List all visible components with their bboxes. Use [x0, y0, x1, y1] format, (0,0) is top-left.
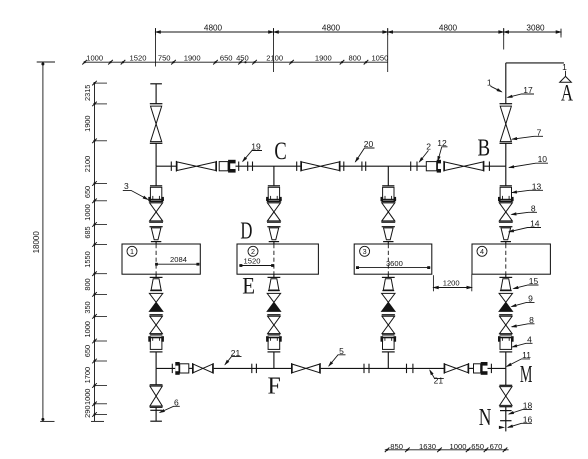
- svg-text:C: C: [274, 136, 286, 165]
- gate valve top flange: [381, 201, 395, 203]
- wire: stub into box: [155, 242, 157, 244]
- flange bar: [416, 162, 418, 171]
- svg-text:750: 750: [158, 54, 171, 63]
- svg-text:M: M: [520, 361, 533, 388]
- gate valve top flange: [150, 384, 163, 386]
- cylinder valve bottom bar: [148, 198, 164, 200]
- flange bar: [500, 410, 512, 412]
- svg-text:1550: 1550: [83, 251, 92, 267]
- svg-text:2: 2: [426, 142, 431, 152]
- gate valve top flange: [499, 201, 513, 203]
- cylinder valve top bar: [148, 336, 164, 338]
- gate valve hourglass: [500, 387, 512, 396]
- svg-text:3: 3: [363, 247, 367, 256]
- flange bar: [150, 314, 163, 316]
- butterfly valve end bar: [483, 161, 485, 172]
- funnel valve top bar: [499, 276, 512, 278]
- leader label 4: [512, 343, 532, 347]
- cylinder valve bottom bar: [498, 198, 514, 200]
- valve hourglass: [500, 106, 511, 124]
- flange bar: [343, 162, 345, 171]
- svg-text:1900: 1900: [315, 54, 332, 63]
- svg-text:1: 1: [487, 78, 492, 88]
- funnel valve body: [501, 228, 511, 240]
- wire: stub out of box: [387, 274, 389, 277]
- svg-text:1630: 1630: [419, 442, 436, 451]
- leader label 14: [509, 228, 541, 232]
- svg-text:3080: 3080: [526, 23, 545, 32]
- butterfly valve end bar: [339, 161, 341, 172]
- svg-text:450: 450: [236, 54, 249, 63]
- svg-text:685: 685: [83, 226, 92, 238]
- svg-text:8: 8: [529, 315, 534, 325]
- check valve (filled) hourglass: [149, 293, 162, 302]
- flange bar: [490, 364, 492, 373]
- leader label 11: [507, 359, 530, 367]
- butterfly valve end bar: [175, 161, 177, 172]
- svg-text:F: F: [267, 374, 280, 400]
- cylinder valve top flange: [268, 185, 280, 187]
- wire: branch 4 below lower header: [505, 368, 507, 385]
- dimension 18000 line: [42, 62, 44, 421]
- cylinder valve bottom bar: [266, 198, 282, 200]
- butterfly valve end bar: [443, 363, 445, 374]
- wire: branch drop from header: [387, 166, 389, 186]
- gate valve bottom flange: [150, 406, 163, 408]
- leader label 8 lower: [512, 324, 535, 327]
- funnel valve top bar: [267, 226, 280, 228]
- flange bar: [361, 162, 363, 171]
- svg-text:1520: 1520: [244, 257, 261, 266]
- gate valve bottom flange: [381, 221, 395, 223]
- svg-text:1000: 1000: [86, 54, 103, 63]
- flange bar: [251, 364, 253, 373]
- check valve (filled) hourglass: [499, 293, 512, 302]
- butterfly valve bowtie: [193, 364, 203, 373]
- svg-text:9: 9: [528, 293, 533, 303]
- flange bar: [170, 162, 172, 171]
- wire: branch drop to lower header: [273, 352, 275, 369]
- svg-text:1900: 1900: [83, 115, 92, 131]
- cylinder valve body: [150, 338, 162, 350]
- leader label 19: [243, 151, 262, 162]
- wire: branch 1 open top: [150, 83, 162, 85]
- equipment box 2 label circle: [248, 246, 258, 256]
- flange bar: [382, 314, 395, 316]
- butterfly valve end bar: [291, 363, 293, 374]
- wire: stub out of box: [505, 274, 507, 277]
- svg-text:1200: 1200: [443, 279, 460, 288]
- equipment box 3: [354, 244, 432, 274]
- leader label 10: [509, 163, 548, 167]
- leader label 20: [355, 148, 374, 162]
- wire: stub into box: [505, 242, 507, 244]
- gate valve hourglass: [150, 203, 163, 212]
- wire: stub out of box: [155, 274, 157, 277]
- gate valve hourglass: [268, 316, 281, 325]
- flange bar: [296, 162, 298, 171]
- flange bar: [150, 409, 162, 411]
- cylinder valve bottom flange: [499, 351, 512, 353]
- svg-text:7: 7: [537, 127, 542, 137]
- svg-text:1520: 1520: [130, 54, 147, 63]
- svg-text:650: 650: [471, 442, 484, 451]
- svg-text:4800: 4800: [204, 23, 223, 32]
- wire: upper header segment 4: [484, 165, 506, 167]
- svg-text:D: D: [240, 216, 252, 244]
- leader label 18: [509, 410, 532, 414]
- svg-text:5: 5: [339, 346, 344, 356]
- flange bar: [171, 364, 173, 373]
- svg-text:650: 650: [83, 345, 92, 357]
- svg-text:800: 800: [348, 54, 361, 63]
- svg-text:650: 650: [83, 186, 92, 198]
- leader label 1: [491, 86, 502, 92]
- wire: branch 1 below lower header: [155, 368, 157, 384]
- wire: branch 1 open bottom: [150, 420, 162, 422]
- box 2 internal dimension 1520: [239, 265, 274, 267]
- valve actuator box: [426, 162, 436, 171]
- butterfly valve end bar: [468, 363, 470, 374]
- cylinder valve body: [268, 187, 279, 200]
- cylinder valve top bar: [498, 336, 514, 338]
- svg-text:18000: 18000: [32, 231, 41, 254]
- svg-text:19: 19: [251, 142, 261, 152]
- svg-text:1000: 1000: [83, 204, 92, 220]
- svg-text:1000: 1000: [83, 389, 92, 405]
- flange bar: [363, 364, 365, 373]
- cylinder valve top bar: [266, 336, 282, 338]
- svg-text:4: 4: [527, 334, 532, 344]
- funnel valve bottom bar: [500, 290, 512, 292]
- funnel valve bottom bar: [268, 290, 280, 292]
- wire: branch 1 drain stub: [155, 407, 157, 421]
- svg-text:1900: 1900: [184, 54, 201, 63]
- funnel valve top bar: [499, 226, 512, 228]
- flange bar: [406, 364, 408, 373]
- svg-text:8: 8: [531, 203, 536, 213]
- cylinder valve bottom flange: [150, 351, 163, 353]
- equipment box 4 label circle: [477, 246, 487, 256]
- funnel valve top bar: [150, 226, 163, 228]
- check valve (filled) hourglass: [382, 293, 395, 302]
- svg-text:4800: 4800: [322, 23, 341, 32]
- wire: branch 4 riser to header: [505, 143, 507, 166]
- svg-text:1000: 1000: [83, 321, 92, 337]
- butterfly valve end bar: [319, 363, 321, 374]
- svg-text:18: 18: [523, 401, 533, 411]
- wire: upper header segment 3: [340, 165, 426, 167]
- svg-text:2315: 2315: [83, 85, 92, 101]
- svg-text:A: A: [561, 81, 573, 106]
- leader label 6: [160, 406, 180, 412]
- flange bar: [500, 334, 513, 336]
- svg-text:15: 15: [529, 276, 539, 286]
- svg-text:16: 16: [523, 414, 533, 424]
- svg-text:B: B: [478, 134, 491, 161]
- left chain ticks: [92, 81, 97, 86]
- dimension row 1 extension lines: [155, 28, 157, 67]
- wire: lower header segment 6: [488, 367, 506, 369]
- flange bar: [150, 334, 163, 336]
- equipment box 1: [122, 244, 200, 274]
- gate valve hourglass: [150, 386, 162, 396]
- funnel valve top bar: [150, 276, 163, 278]
- funnel valve bottom bar: [150, 290, 162, 292]
- cylinder valve top flange: [500, 185, 512, 187]
- leader label 21 left: [225, 357, 242, 365]
- cylinder valve bottom flange: [382, 351, 395, 353]
- svg-text:E: E: [242, 273, 255, 299]
- wire: branch 4 top run to point A: [506, 62, 564, 64]
- leader label 21 right: [430, 370, 444, 378]
- svg-text:1000: 1000: [450, 442, 467, 451]
- svg-text:4800: 4800: [439, 23, 458, 32]
- flange bar: [267, 314, 280, 316]
- svg-text:290: 290: [83, 406, 92, 418]
- wire: branch drop to lower header: [505, 352, 507, 369]
- cylinder valve body: [383, 338, 395, 350]
- svg-text:800: 800: [83, 278, 92, 290]
- valve body flange top at x=156.1: [150, 103, 163, 105]
- check valve (filled) hourglass: [267, 293, 280, 302]
- wire: branch drop from header: [273, 166, 275, 186]
- wire: stub into box: [387, 242, 389, 244]
- cylinder valve top bar: [381, 336, 397, 338]
- flange bar: [255, 364, 257, 373]
- gate valve bottom flange: [499, 406, 512, 408]
- svg-text:N: N: [479, 403, 492, 431]
- valve actuator box: [474, 364, 481, 373]
- flange bar: [268, 334, 281, 336]
- wire: branch drop to lower header: [387, 352, 389, 369]
- funnel valve body: [269, 279, 279, 290]
- equipment box 1 label circle: [127, 246, 137, 256]
- wire: lower header segment 5: [469, 367, 473, 369]
- wire: branch drop from header: [505, 166, 507, 186]
- leader label 3: [123, 190, 148, 199]
- flange bar: [382, 334, 395, 336]
- wire: branch drop to lower header: [155, 352, 157, 369]
- flange bar: [252, 162, 254, 171]
- point A flow arrow: [565, 71, 567, 77]
- funnel valve body: [384, 228, 394, 240]
- wire: branch 4 drain stub: [505, 407, 507, 432]
- cylinder valve top flange: [382, 185, 394, 187]
- svg-text:850: 850: [390, 442, 403, 451]
- leader label 15: [514, 285, 539, 289]
- wire: lower header segment 2: [189, 367, 193, 369]
- gate valve hourglass: [267, 203, 280, 212]
- flange bar: [410, 162, 412, 171]
- wire: branch 1 riser top: [155, 84, 157, 104]
- butterfly valve bowtie: [292, 364, 306, 373]
- flange bar: [499, 314, 512, 316]
- svg-text:20: 20: [364, 139, 374, 149]
- leader label 17: [508, 94, 534, 97]
- equipment box 4 centerline: [505, 244, 507, 274]
- valve body flange top at x=505.8: [500, 103, 513, 105]
- gate valve bottom flange: [267, 221, 281, 223]
- leader label 8: [512, 212, 538, 214]
- funnel valve top bar: [268, 276, 281, 278]
- svg-text:650: 650: [220, 54, 233, 63]
- dimension row 1 line: [156, 31, 562, 33]
- left dimension chain line: [94, 83, 96, 421]
- flange bar: [500, 420, 511, 422]
- equipment box 2: [237, 244, 318, 274]
- svg-text:2100: 2100: [266, 54, 283, 63]
- butterfly valve bowtie: [302, 162, 321, 171]
- bottom chain ticks: [385, 448, 390, 453]
- gate valve top flange: [499, 384, 512, 386]
- svg-text:13: 13: [532, 181, 542, 191]
- funnel valve bottom bar: [382, 290, 394, 292]
- gate valve hourglass: [150, 316, 163, 325]
- funnel valve bottom bar: [151, 241, 161, 243]
- leader label 12: [438, 147, 448, 161]
- wire: stub into box: [273, 242, 275, 244]
- funnel valve body: [151, 279, 161, 290]
- funnel valve body: [151, 228, 161, 240]
- dimension row 1 ticks and arrows: [155, 29, 157, 36]
- wire: upper header segment 2: [236, 165, 302, 167]
- svg-text:14: 14: [530, 219, 540, 229]
- svg-text:350: 350: [83, 301, 92, 313]
- wire: stub out of box: [273, 274, 275, 277]
- gate valve top flange: [267, 201, 281, 203]
- gate valve bottom flange: [499, 221, 513, 223]
- wire: upper header segment 1: [156, 165, 176, 167]
- valve body flange bottom: [150, 142, 163, 144]
- gate valve top flange: [149, 201, 163, 203]
- svg-text:21: 21: [434, 375, 444, 385]
- dimension 18000 end ticks: [37, 61, 55, 63]
- valve actuator box: [180, 364, 189, 373]
- dimension row 2 ticks: [82, 60, 87, 65]
- butterfly valve end bar: [300, 161, 302, 172]
- funnel valve body: [383, 279, 393, 290]
- cylinder valve body: [500, 338, 512, 350]
- valve hourglass: [151, 106, 162, 124]
- svg-text:1050: 1050: [371, 54, 388, 63]
- butterfly valve end bar: [192, 363, 194, 374]
- funnel valve body: [269, 228, 279, 240]
- butterfly valve bowtie: [445, 162, 464, 171]
- svg-text:12: 12: [437, 138, 447, 148]
- leader label 9: [512, 302, 535, 306]
- svg-text:2: 2: [251, 247, 255, 256]
- flange bar: [365, 162, 367, 171]
- wire: branch drop from header: [155, 166, 157, 186]
- leader label 5: [329, 355, 346, 366]
- funnel valve top bar: [382, 276, 395, 278]
- cylinder valve body: [150, 187, 161, 200]
- equipment box 4: [472, 244, 550, 274]
- flange bar: [368, 364, 370, 373]
- gate valve hourglass: [382, 203, 395, 212]
- gate valve hourglass: [382, 316, 395, 325]
- dimension 1200 between box 3 and box 4: [432, 275, 434, 291]
- gate valve hourglass: [500, 316, 513, 325]
- svg-text:11: 11: [522, 350, 531, 360]
- butterfly valve bowtie: [445, 364, 457, 373]
- wire: branch 4 riser: [505, 63, 507, 104]
- equipment box 3 centerline: [387, 244, 389, 274]
- funnel valve bottom bar: [269, 241, 279, 243]
- svg-text:21: 21: [231, 348, 241, 358]
- funnel valve bottom bar: [501, 241, 511, 243]
- wire: lower header segment 3: [214, 367, 292, 369]
- equipment box 3 label circle: [360, 246, 370, 256]
- cylinder valve top flange: [150, 185, 162, 187]
- wire: branch 1 riser to header: [155, 143, 157, 166]
- valve actuator box: [219, 162, 228, 171]
- bottom dimension chain line: [385, 449, 509, 451]
- equipment box 2 centerline: [273, 244, 275, 274]
- cylinder valve body: [268, 338, 280, 350]
- butterfly valve bowtie: [177, 162, 196, 171]
- cylinder valve body: [383, 187, 394, 200]
- svg-text:3600: 3600: [386, 259, 403, 268]
- leader label 7: [512, 136, 543, 139]
- cylinder valve bottom flange: [268, 351, 281, 353]
- valve body flange bottom: [500, 142, 513, 144]
- svg-text:17: 17: [523, 85, 533, 95]
- gate valve bottom flange: [149, 221, 163, 223]
- svg-text:3: 3: [124, 181, 129, 191]
- leader label 16: [508, 423, 532, 427]
- dimension row 2 line: [85, 61, 388, 63]
- equipment box 1 centerline: [155, 244, 157, 274]
- funnel valve body: [501, 279, 511, 290]
- leader label 13: [512, 190, 543, 192]
- butterfly valve end bar: [443, 161, 445, 172]
- svg-text:2084: 2084: [170, 255, 187, 264]
- svg-text:1: 1: [562, 62, 567, 72]
- box 3 internal dimension 3600: [356, 267, 430, 269]
- svg-text:10: 10: [538, 154, 548, 164]
- wire: lower header segment 1: [156, 367, 175, 369]
- funnel valve top bar: [382, 226, 395, 228]
- wire: lower header segment 4: [321, 367, 445, 369]
- box 1 internal dimension 2084: [156, 263, 199, 265]
- funnel valve bottom bar: [383, 241, 393, 243]
- butterfly valve end bar: [212, 363, 214, 374]
- svg-text:670: 670: [490, 442, 503, 451]
- cylinder valve bottom bar: [381, 198, 397, 200]
- flange bar: [238, 162, 240, 171]
- leader label 16 counter-arrow: [499, 426, 504, 428]
- leader label 2: [419, 150, 428, 162]
- svg-text:1: 1: [130, 247, 134, 256]
- gate valve hourglass: [499, 203, 512, 212]
- cylinder valve body: [500, 187, 511, 200]
- butterfly valve end bar: [215, 161, 217, 172]
- flange bar: [488, 162, 490, 171]
- flange bar: [247, 162, 249, 171]
- svg-text:4: 4: [480, 247, 484, 256]
- svg-text:1700: 1700: [83, 367, 92, 383]
- svg-text:6: 6: [174, 397, 179, 407]
- svg-text:2100: 2100: [83, 156, 92, 172]
- flange bar: [412, 364, 414, 373]
